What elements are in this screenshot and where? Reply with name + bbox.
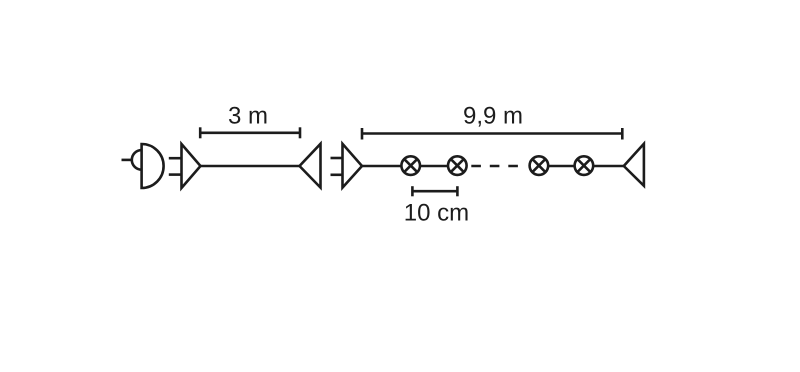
lamp L2 <box>448 156 467 175</box>
dimension line 10 cm <box>412 186 457 196</box>
lamp L3 <box>530 156 549 175</box>
wire W3 <box>421 165 448 168</box>
wire W6 <box>594 165 624 168</box>
connector plug prong top <box>169 157 181 160</box>
dimension line 3 m <box>200 127 300 138</box>
connector plug triangle T3 <box>343 144 363 188</box>
svg-text:3 m: 3 m <box>228 102 268 129</box>
plug P1 lead stub <box>122 159 133 162</box>
plug P1 body <box>142 144 164 188</box>
wire W4 dashed continuation <box>471 165 518 168</box>
connector plug prong bottom <box>169 173 181 176</box>
lamp L4 <box>575 156 594 175</box>
lamp L1 <box>401 156 420 175</box>
connector plug prong bottom (second) <box>331 174 343 177</box>
svg-text:10 cm: 10 cm <box>404 199 469 226</box>
connector plug prong top (second) <box>331 157 343 160</box>
dimension line 9,9 m <box>362 128 622 140</box>
plug P1 ring (left semicircle) <box>132 150 142 170</box>
svg-text:9,9 m: 9,9 m <box>463 102 523 129</box>
connector plug triangle T1 <box>182 144 201 188</box>
socket triangle T2 <box>300 144 321 188</box>
wire W5 <box>549 165 574 168</box>
socket triangle T4 (end cap) <box>624 144 644 186</box>
wire W1 (3 m cord) <box>201 165 300 168</box>
wire W2 <box>362 165 401 168</box>
